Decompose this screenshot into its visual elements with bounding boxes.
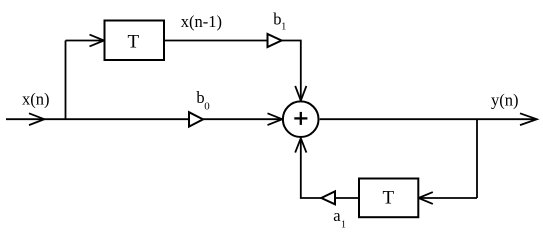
wire from b1 down to summing node: [282, 41, 301, 101]
delay block T1: [105, 21, 165, 61]
svg-text:y(n): y(n): [491, 90, 519, 109]
wire: feedback into delay T2: [419, 197, 477, 199]
node: branch junction on x(n) line: [65, 41, 67, 120]
gain b1 triangle: [268, 34, 282, 47]
wire: input x(n) main horizontal line: [6, 118, 282, 120]
arrowhead into summing node left: [268, 113, 283, 125]
delay block T2: [359, 179, 418, 218]
wire into delay T1: [66, 40, 104, 42]
svg-text:1: 1: [341, 220, 346, 231]
arrowhead on output y(n): [520, 113, 537, 125]
wire from T2 to gain a1: [335, 197, 359, 199]
gain b0 triangle: [189, 112, 203, 126]
arrowhead into summing node bottom: [295, 138, 306, 152]
svg-text:1: 1: [281, 22, 286, 33]
wire from T1 to gain b1: [164, 40, 268, 42]
arrowhead on input wire: [29, 113, 44, 125]
svg-text:x(n-1): x(n-1): [181, 12, 222, 31]
wire: output y(n) line: [320, 118, 536, 120]
gain a1 triangle: [321, 191, 335, 204]
arrowhead into summing node top: [295, 86, 306, 101]
svg-text:0: 0: [204, 100, 210, 112]
wire from a1 up to summing node bottom: [301, 139, 322, 198]
arrowhead into delay T1: [90, 35, 105, 47]
svg-text:T: T: [128, 32, 140, 53]
arrowhead into delay T2: [419, 192, 433, 204]
node: output branch junction: [476, 119, 478, 198]
plus sign in summing node: [294, 117, 307, 119]
summing node U1 circle: [283, 101, 319, 137]
svg-text:x(n): x(n): [22, 90, 50, 109]
svg-text:T: T: [383, 188, 395, 209]
